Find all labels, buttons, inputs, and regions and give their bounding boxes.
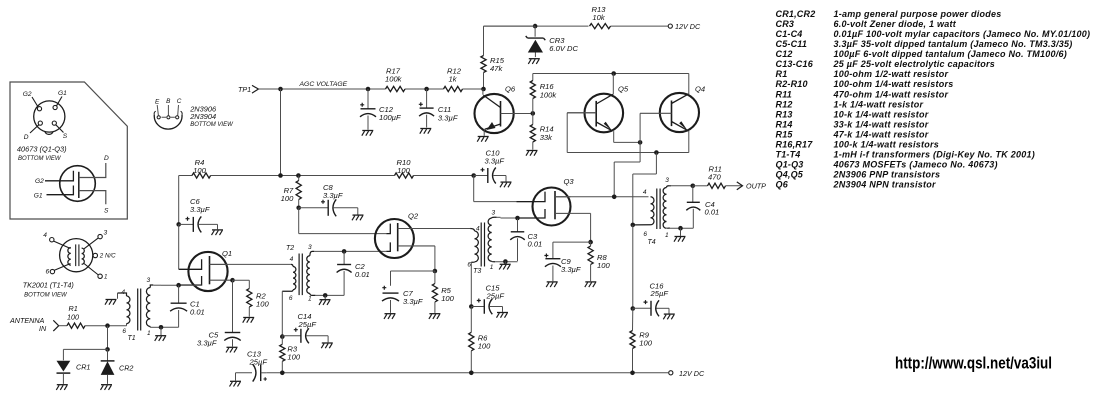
svg-text:3: 3 [665, 177, 669, 184]
capacitor C3 [510, 218, 542, 261]
ground CR2 [101, 385, 113, 390]
node Q6 collector [531, 111, 536, 116]
svg-text:R2-R10: R2-R10 [776, 79, 808, 89]
node R7 top [296, 173, 301, 178]
wire C10 node to Q3 gate2 [474, 176, 536, 202]
svg-text:TP1: TP1 [238, 85, 251, 94]
svg-text:0.01: 0.01 [355, 270, 370, 279]
svg-text:100µF 6-volt dipped tantalum (: 100µF 6-volt dipped tantalum (Jameco No.… [834, 49, 1067, 59]
node T3 sec bottom [503, 259, 508, 264]
svg-text:G2: G2 [23, 91, 32, 98]
ground CR1 [56, 385, 68, 390]
ground C15 [497, 313, 509, 318]
svg-text:Q1-Q3: Q1-Q3 [776, 159, 804, 169]
svg-text:IN: IN [39, 324, 47, 333]
svg-text:1: 1 [490, 264, 494, 271]
label BOTTOM VIEW 40673 [18, 156, 62, 162]
svg-text:1k: 1k [449, 74, 458, 83]
wire T1 secondary bottom [161, 326, 179, 328]
transistor Q4 [640, 74, 705, 153]
svg-text:100µF: 100µF [379, 113, 401, 122]
svg-text:12V DC: 12V DC [675, 22, 701, 31]
node diode junction [105, 347, 110, 352]
capacitor C16 [633, 281, 669, 316]
wire to C9 [553, 242, 591, 258]
wire T4 secondary top to output [669, 185, 693, 187]
svg-text:Q3: Q3 [564, 177, 575, 186]
capacitor C10 [474, 148, 506, 183]
svg-text:CR2: CR2 [119, 364, 133, 373]
svg-text:Q4,Q5: Q4,Q5 [776, 169, 804, 179]
svg-text:C: C [177, 98, 182, 105]
svg-text:3: 3 [492, 210, 496, 217]
svg-text:100: 100 [478, 342, 491, 351]
wire T4 secondary bottom [670, 227, 693, 229]
svg-text:R14: R14 [776, 119, 793, 129]
svg-text:1: 1 [665, 232, 669, 239]
capacitor C8 [299, 183, 358, 216]
ground C10 [500, 182, 512, 187]
40673 can bottom view [23, 90, 68, 141]
wire Q3 drain to T4 [555, 196, 649, 198]
svg-text:10k: 10k [592, 13, 605, 22]
parts list [776, 9, 1091, 189]
svg-text:BOTTOM VIEW: BOTTOM VIEW [24, 293, 68, 299]
node TP1-AGC [278, 87, 283, 92]
resistor R17 [385, 66, 405, 91]
svg-text:3.3µF: 3.3µF [485, 156, 505, 165]
svg-text:25µF: 25µF [249, 357, 268, 366]
svg-text:2 N/C: 2 N/C [99, 253, 116, 260]
40673 symbol [34, 155, 109, 214]
transistor Q6 [475, 85, 533, 136]
svg-text:4: 4 [643, 189, 647, 196]
label OUTP [746, 182, 766, 191]
svg-text:Q6: Q6 [776, 179, 789, 189]
capacitor C15 [471, 284, 504, 315]
capacitor C7 [382, 286, 423, 313]
output arrow [726, 182, 743, 190]
svg-text:R12: R12 [776, 99, 793, 109]
ground C8 [352, 215, 364, 220]
node C3 top [515, 216, 520, 221]
svg-text:C1-C4: C1-C4 [776, 29, 803, 39]
wire 12V top rail [484, 25, 668, 27]
wire Q2 source down [434, 246, 436, 271]
wire R1 to T1 [85, 325, 127, 327]
svg-text:3: 3 [104, 230, 108, 237]
node Q2 source RC [433, 269, 438, 274]
svg-text:4: 4 [290, 256, 294, 263]
node T4 feed [654, 150, 659, 155]
ground R14 [526, 151, 538, 156]
node antenna junction [105, 323, 110, 328]
wire T2 secondary top to Q2 gate1 [314, 250, 386, 252]
transistor Q5 [567, 74, 629, 143]
label AGC VOLTAGE [299, 81, 348, 88]
ground C12 [362, 131, 373, 136]
diode CR2 [101, 349, 134, 384]
wire T2 primary bottom to R3 node [281, 291, 283, 336]
ground C9 [546, 282, 558, 287]
wire Q4 base vertical [639, 113, 641, 142]
svg-text:3.3µF: 3.3µF [190, 205, 210, 214]
svg-text:R11: R11 [776, 89, 792, 99]
resistor R10 [395, 158, 414, 178]
node Q1 source [230, 278, 235, 283]
svg-text:100: 100 [256, 299, 269, 308]
svg-text:R1: R1 [776, 69, 788, 79]
svg-text:G1: G1 [34, 193, 43, 200]
wire to C7 [391, 271, 435, 286]
ground T2 secondary [319, 295, 331, 305]
svg-text:CR1: CR1 [76, 363, 90, 372]
svg-text:6: 6 [467, 261, 471, 268]
svg-text:6: 6 [122, 328, 126, 335]
svg-text:4: 4 [43, 232, 47, 239]
TK2001 bottom view [43, 230, 116, 281]
node T4 sec bottom [678, 226, 683, 231]
svg-text:470: 470 [708, 173, 721, 182]
capacitor C5 [197, 280, 241, 347]
wire rail to R15 [484, 25, 536, 27]
ground R5 [429, 314, 440, 319]
resistor R3 [280, 337, 301, 373]
svg-text:100k: 100k [385, 74, 403, 83]
svg-text:100: 100 [397, 166, 410, 175]
wire Q5-Q4 collector rail [533, 73, 689, 75]
node T1 sec bottom [159, 325, 164, 330]
capacitor C13 [230, 349, 268, 386]
svg-text:100: 100 [639, 338, 652, 347]
wire T2 secondary bottom [315, 294, 344, 296]
ground T1 secondary [155, 327, 167, 341]
svg-text:25 µF 25-volt electrolytic cap: 25 µF 25-volt electrolytic capacitors [833, 59, 996, 69]
svg-text:3.3µF: 3.3µF [438, 113, 458, 122]
svg-text:0.01: 0.01 [528, 240, 543, 249]
resistor R11 [693, 165, 726, 189]
test point TP1 [238, 85, 259, 94]
label 2N3906 [189, 105, 217, 114]
svg-text:10-k 1/4-watt resistor: 10-k 1/4-watt resistor [834, 109, 929, 119]
svg-text:6: 6 [643, 231, 647, 238]
svg-text:25µF: 25µF [650, 289, 669, 298]
capacitor C12 [360, 89, 401, 130]
svg-text:100: 100 [597, 261, 610, 270]
svg-text:BOTTOM VIEW: BOTTOM VIEW [190, 122, 234, 128]
resistor R2 [233, 280, 270, 317]
svg-text:C13-C16: C13-C16 [776, 59, 814, 69]
svg-text:100-k 1/4-watt resistors: 100-k 1/4-watt resistors [834, 139, 940, 149]
wire Q2 drain to T3 [398, 228, 471, 230]
svg-text:1: 1 [104, 273, 107, 280]
panel outline 40673 [10, 82, 127, 219]
svg-text:6: 6 [46, 268, 50, 275]
svg-text:40673 (Q1-Q3): 40673 (Q1-Q3) [17, 145, 67, 154]
node R7 bottom [296, 206, 301, 211]
ground C14 [321, 343, 332, 348]
svg-text:1: 1 [147, 330, 151, 337]
svg-text:AGC VOLTAGE: AGC VOLTAGE [299, 81, 348, 88]
svg-text:1-amp general purpose power di: 1-amp general purpose power diodes [834, 9, 1002, 19]
svg-text:3: 3 [147, 277, 151, 284]
svg-text:D: D [24, 134, 29, 141]
node C12 top [366, 87, 371, 92]
svg-text:100-ohm 1/4-watt resistors: 100-ohm 1/4-watt resistors [834, 79, 954, 89]
transformer T2 [282, 244, 315, 302]
svg-text:3.3µF: 3.3µF [197, 339, 217, 348]
svg-text:Q2: Q2 [408, 212, 419, 221]
wire AGC voltage line [259, 88, 484, 90]
transformer T3 [467, 210, 496, 275]
resistor R6 [469, 307, 491, 373]
wire Q1 drain to T2 [210, 263, 291, 265]
node C1 top [176, 283, 181, 288]
svg-text:R13: R13 [776, 109, 793, 119]
svg-text:Q5: Q5 [618, 85, 629, 94]
node C2 top [342, 249, 347, 254]
node C10 [471, 173, 476, 178]
transformer T4 [633, 177, 671, 246]
node C6 [176, 222, 181, 227]
svg-text:G2: G2 [35, 178, 44, 185]
resistor R4 [192, 158, 211, 178]
svg-text:470-ohm 1/4-watt resistor: 470-ohm 1/4-watt resistor [833, 89, 949, 99]
capacitor C4 [686, 186, 719, 228]
svg-text:G1: G1 [58, 90, 67, 97]
label 2N3904 [189, 112, 216, 121]
ground T4 secondary [674, 228, 686, 242]
svg-text:4: 4 [476, 225, 480, 232]
svg-text:C12: C12 [776, 49, 793, 59]
svg-text:D: D [104, 155, 109, 162]
svg-text:T1-T4: T1-T4 [776, 149, 801, 159]
capacitor C11 [419, 89, 458, 128]
resistor R15 [481, 26, 505, 89]
svg-text:0.01: 0.01 [190, 307, 205, 316]
wire T3 secondary bottom [495, 261, 517, 263]
ground C5 [226, 347, 238, 352]
wire antenna to R1 [59, 325, 67, 327]
label ANTENNA IN [9, 316, 47, 333]
svg-text:CR1,CR2: CR1,CR2 [776, 9, 816, 19]
svg-text:3.3µF: 3.3µF [323, 191, 343, 200]
svg-text:CR3: CR3 [776, 19, 795, 29]
svg-text:Q4: Q4 [695, 85, 705, 94]
wire bottom 12V rail [266, 372, 668, 374]
ground CR3 [528, 59, 540, 64]
svg-text:47k: 47k [490, 64, 503, 73]
ground T1 primary top [105, 300, 117, 305]
ground C7 [384, 314, 396, 319]
wire Q4 base node to Q3 drain [614, 142, 640, 196]
svg-text:6: 6 [289, 295, 293, 302]
resistor R5 [432, 271, 454, 313]
svg-text:Q1: Q1 [222, 249, 232, 258]
antenna chevron [53, 320, 58, 331]
node Q3 source RC [588, 240, 593, 245]
svg-text:100: 100 [67, 312, 79, 321]
svg-text:25µF: 25µF [298, 320, 317, 329]
svg-text:1-k 1/4-watt resistor: 1-k 1/4-watt resistor [834, 99, 924, 109]
svg-text:T1: T1 [128, 335, 136, 342]
resistor R7 [281, 176, 302, 208]
resistor R14 [530, 113, 553, 149]
svg-text:100-ohm 1/2-watt resistor: 100-ohm 1/2-watt resistor [834, 69, 949, 79]
svg-text:T2: T2 [286, 245, 294, 252]
svg-text:0.01µF 100-volt mylar capacito: 0.01µF 100-volt mylar capacitors (Jameco… [834, 29, 1091, 39]
resistor R12 [444, 66, 463, 91]
svg-text:R15: R15 [776, 129, 794, 139]
wire T3 primary bottom column [470, 262, 472, 306]
node Q5e-Q4b [638, 140, 643, 145]
capacitor C6 [179, 197, 218, 232]
wire R4 left to C6 node [178, 176, 180, 225]
svg-text:3: 3 [308, 244, 312, 251]
MOSFET Q3 [517, 177, 575, 226]
svg-text:33k: 33k [540, 133, 553, 142]
capacitor C14 [282, 312, 328, 343]
node R6 bottom rail [469, 371, 474, 376]
svg-text:T4: T4 [648, 239, 656, 246]
ground T3 secondary [499, 262, 511, 270]
svg-text:47-k 1/4-watt resistor: 47-k 1/4-watt resistor [833, 129, 929, 139]
wire to CR1 [63, 349, 107, 360]
svg-text:100: 100 [193, 166, 206, 175]
svg-text:25µF: 25µF [486, 292, 505, 301]
wire gate bias line [179, 175, 474, 177]
diode CR1 [57, 361, 91, 384]
svg-text:12V DC: 12V DC [679, 369, 705, 378]
svg-text:3.3µF: 3.3µF [561, 265, 581, 274]
ground Q6 emitter [477, 137, 489, 142]
wire diode feed [107, 326, 109, 350]
node C15 [469, 304, 474, 309]
svg-text:T3: T3 [473, 268, 481, 275]
ground C11 [420, 129, 431, 134]
ground R8 [585, 282, 597, 287]
resistor R8 [588, 242, 610, 281]
wire CR3 stub [534, 26, 536, 37]
wire R7 node to Q2 gate2 [299, 208, 387, 234]
wire T1 secondary to Q1 gate1 [161, 284, 202, 286]
svg-text:http://www.qsl.net/va3iul: http://www.qsl.net/va3iul [895, 355, 1052, 373]
svg-text:R16,R17: R16,R17 [776, 139, 814, 149]
svg-text:BOTTOM VIEW: BOTTOM VIEW [18, 156, 62, 162]
MOSFET Q1 [179, 249, 233, 291]
svg-text:33-k 1/4-watt resistor: 33-k 1/4-watt resistor [834, 119, 929, 129]
svg-text:100: 100 [441, 294, 454, 303]
wire node to T4 primary-bottom column [633, 153, 657, 225]
wire Q5 emitter to Q4 base node [614, 141, 640, 143]
resistor R9 [630, 309, 653, 373]
node T4 primary bottom [631, 223, 636, 228]
node C11 top [424, 87, 429, 92]
resistor R1 [67, 304, 85, 328]
capacitor C1 [170, 285, 205, 327]
svg-text:2N3904: 2N3904 [189, 112, 216, 121]
label BOTTOM VIEW 2N [190, 122, 234, 128]
node R3 bottom rail [280, 371, 285, 376]
node output [691, 184, 696, 189]
svg-text:3.3µF 35-volt dipped tantalum: 3.3µF 35-volt dipped tantalum (Jameco No… [834, 39, 1073, 49]
node rail-CR3 [533, 24, 538, 29]
wire T3 secondary top to Q3 gate1 [496, 216, 536, 219]
label TK2001 (T1-T4) [23, 281, 74, 290]
ground R2 [243, 318, 255, 323]
transformer T1 [118, 277, 162, 342]
svg-text:1: 1 [308, 296, 312, 303]
wire T4 bottom column [632, 225, 634, 309]
svg-text:100: 100 [281, 194, 294, 203]
svg-text:4: 4 [121, 289, 125, 296]
capacitor C9 [544, 254, 581, 282]
svg-text:6.0-volt Zener diode, 1 watt: 6.0-volt Zener diode, 1 watt [834, 19, 957, 29]
svg-text:3.3µF: 3.3µF [403, 297, 423, 306]
svg-text:Q6: Q6 [505, 85, 516, 94]
zener CR3 [526, 36, 579, 57]
URL caption [895, 355, 1052, 373]
node R9 bottom rail [630, 371, 635, 376]
label 40673 (Q1-Q3) [17, 145, 67, 154]
2N390x bottom view [154, 98, 182, 129]
svg-text:S: S [63, 133, 68, 140]
terminal 12V DC bottom [669, 369, 705, 378]
node R3 top [280, 334, 285, 339]
svg-text:B: B [166, 98, 171, 105]
terminal 12V DC top [668, 22, 701, 31]
capacitor C2 [337, 251, 370, 295]
wire C6 node to Q1 gate2 [178, 224, 180, 269]
svg-text:100: 100 [287, 352, 300, 361]
ground C16 [663, 314, 675, 319]
node Q3 drain junction [612, 195, 617, 200]
node T2 sec bottom [323, 293, 328, 298]
label BOTTOM VIEW TK2001 [24, 293, 68, 299]
resistor R16 [530, 74, 557, 114]
svg-text:C5-C11: C5-C11 [776, 39, 808, 49]
svg-text:S: S [104, 207, 109, 214]
node Q5 collector rail [611, 71, 616, 76]
svg-text:6.0V DC: 6.0V DC [549, 44, 578, 53]
svg-text:OUTP: OUTP [746, 182, 766, 191]
node TP1 line2 [278, 173, 283, 178]
svg-text:100k: 100k [540, 91, 558, 100]
resistor R13 [590, 5, 611, 29]
wire Q5 base line [567, 113, 689, 153]
node C16 [631, 306, 636, 311]
wire Q3 source [570, 213, 590, 242]
ground C6 [212, 230, 224, 235]
MOSFET Q2 [375, 212, 435, 259]
svg-text:2N3904 NPN transistor: 2N3904 NPN transistor [833, 179, 937, 189]
wire TP1 vertical [280, 89, 282, 176]
svg-text:2N3906 PNP transistors: 2N3906 PNP transistors [833, 169, 941, 179]
svg-text:TK2001 (T1-T4): TK2001 (T1-T4) [23, 281, 74, 290]
svg-text:40673 MOSFETs (Jameco No. 4067: 40673 MOSFETs (Jameco No. 40673) [833, 159, 998, 169]
node Q6 base [481, 87, 486, 92]
svg-text:E: E [155, 99, 160, 106]
svg-text:1-mH i-f transformers (Digi-Ke: 1-mH i-f transformers (Digi-Key No. TK 2… [834, 149, 1036, 159]
svg-text:0.01: 0.01 [705, 208, 720, 217]
